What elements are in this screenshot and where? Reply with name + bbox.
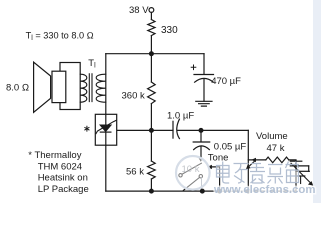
page edge strip xyxy=(313,0,321,203)
device gate diagonal xyxy=(96,120,116,133)
tone wiper to ground: arrow xyxy=(211,167,220,191)
capacitor C 1.0uF xyxy=(172,121,174,138)
node junction 56k to bus xyxy=(150,189,154,193)
volume wiper diagonal xyxy=(249,161,256,167)
device lead bottom xyxy=(105,132,107,145)
resistor 360k xyxy=(148,82,156,104)
tone pot lower lever xyxy=(183,178,199,191)
ground under 470uF xyxy=(196,101,212,106)
wire: 360k top to junction xyxy=(150,54,152,82)
wire: top-right drop to C 470uF xyxy=(203,54,205,75)
input plug arrow xyxy=(291,163,311,183)
svg-text:Heatsink on: Heatsink on xyxy=(38,173,88,184)
svg-text:38 V: 38 V xyxy=(129,5,149,16)
transformer T1 core xyxy=(89,74,92,102)
svg-text:* Thermalloy: * Thermalloy xyxy=(28,150,81,161)
capacitor C 470uF plus sign xyxy=(191,65,196,70)
svg-text:56 k: 56 k xyxy=(126,166,144,177)
volume wiper arrowhead on wire xyxy=(251,158,256,162)
svg-text:470 µF: 470 µF xyxy=(211,76,241,87)
wire: 1.0uF to output node xyxy=(177,129,248,131)
transformer T1 primary winding xyxy=(80,74,87,102)
wire: 0.05uF to tone pot wiper arrow xyxy=(200,146,202,158)
svg-text:47 k: 47 k xyxy=(267,143,285,154)
asterisk by device xyxy=(85,126,89,131)
capacitor C 0.05uF xyxy=(193,141,210,143)
node junction output / tone branch xyxy=(199,129,203,133)
svg-text:360 k: 360 k xyxy=(122,91,145,102)
wire: terminal to R 330 xyxy=(150,13,152,20)
node junction on top rail xyxy=(150,52,154,56)
svg-text:Volume: Volume xyxy=(256,131,288,142)
potentiometer volume 47k xyxy=(266,157,289,163)
input jack stem to bus xyxy=(295,161,297,191)
wire: top rail xyxy=(106,53,204,55)
input plug arrowhead xyxy=(308,181,313,186)
input jack right post xyxy=(308,166,310,171)
transformer T1 secondary winding xyxy=(96,74,106,102)
wire: device output to mid rail xyxy=(117,129,173,131)
wire: volume pot right lead xyxy=(289,160,296,161)
wire: tone branch down xyxy=(200,130,202,142)
svg-text:Tone: Tone xyxy=(208,153,229,164)
device cathode bar xyxy=(100,131,111,133)
svg-text:8.0 Ω: 8.0 Ω xyxy=(6,83,29,94)
input jack lower stub xyxy=(300,176,302,184)
svg-text:THM 6024: THM 6024 xyxy=(38,161,82,172)
resistor 56k xyxy=(150,130,152,161)
potentiometer tone 10k body xyxy=(182,163,201,174)
node junction mid rail / 360k / 56k xyxy=(150,129,154,133)
node: +38V supply terminal xyxy=(149,8,154,13)
op-amp device U1 box xyxy=(95,114,116,145)
svg-text:www.elecfans.com: www.elecfans.com xyxy=(213,184,316,196)
speaker driver xyxy=(52,71,66,102)
tone pot terminal circle lower xyxy=(199,175,202,178)
wire: output rail corner down to volume pot xyxy=(247,130,249,191)
resistor 330 xyxy=(148,20,155,36)
tone pot wiper arrowhead xyxy=(198,158,202,162)
capacitor C 470uF xyxy=(194,74,214,76)
svg-text:LP Package: LP Package xyxy=(38,184,89,195)
svg-text:Tl = 330 to 8.0 Ω: Tl = 330 to 8.0 Ω xyxy=(26,31,94,43)
device lead top inside box xyxy=(105,114,107,125)
svg-text:0.05 µF: 0.05 µF xyxy=(214,142,247,153)
wire: R330 to top rail xyxy=(150,36,152,54)
wire: 360k bottom to mid rail xyxy=(150,104,152,131)
volume wiper diagonal arrowhead xyxy=(246,165,251,169)
node junction volume pot left on bus xyxy=(246,189,250,193)
svg-text:1.0 µF: 1.0 µF xyxy=(167,111,194,122)
tone pot terminal circle upper xyxy=(179,174,182,177)
wire loop speaker to transformer primary xyxy=(60,63,80,110)
wire: volume pot left lead xyxy=(248,159,265,161)
svg-text:330: 330 xyxy=(161,25,178,36)
node junction wiper ground on bus xyxy=(218,189,222,193)
wire: device bottom lead to ground bus xyxy=(105,145,107,191)
node junction tone chain on bus xyxy=(200,189,204,193)
watermark chinese characters xyxy=(217,162,300,184)
wire: rail down through secondary to amp device xyxy=(105,54,107,115)
speaker cone xyxy=(34,62,51,112)
svg-text:Tl: Tl xyxy=(88,58,96,70)
wire: cap to ground xyxy=(203,79,205,102)
input jack bars xyxy=(290,160,302,162)
tone wiper arrowhead xyxy=(207,165,212,169)
device triangle xyxy=(100,125,111,131)
watermark circle logo xyxy=(176,156,210,190)
ground bus wire xyxy=(106,190,296,192)
tone pot lead to bus xyxy=(201,178,203,190)
